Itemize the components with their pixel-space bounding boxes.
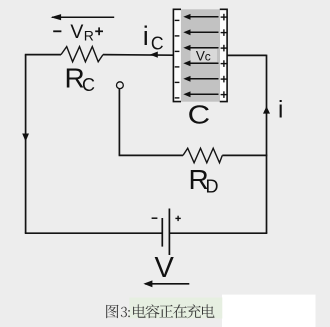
label minus of VR: [53, 30, 61, 32]
minus charge 5 on left plate: [175, 81, 180, 83]
field arrow 6 inside capacitor: [183, 91, 218, 97]
svg-text:C: C: [82, 75, 95, 95]
wire: top left segment to resistor RC: [25, 54, 61, 56]
field arrow 5 inside capacitor: [183, 76, 218, 82]
resistor RD zigzag: [183, 148, 222, 163]
battery negative plate (short bar): [161, 218, 163, 247]
white page band bottom right: [222, 295, 316, 327]
plus charge 2 on right plate: [221, 29, 228, 36]
plus charge 4 on right plate: [221, 60, 228, 67]
svg-text:C: C: [151, 34, 164, 54]
label plus of VR: [95, 27, 103, 35]
top voltage arrow (points left): [51, 14, 115, 20]
field arrow 4 inside capacitor: [183, 60, 218, 66]
svg-text:V: V: [196, 48, 205, 63]
capacitor right plate white strip: [220, 10, 227, 101]
caption highlight: [129, 298, 222, 319]
wire: right vertical branch: [266, 55, 268, 234]
battery plus label: [175, 216, 180, 221]
battery positive plate (long bar): [168, 209, 170, 256]
battery minus label: [152, 217, 158, 219]
plus charge 3 on right plate: [221, 45, 228, 52]
minus charge 2 on left plate: [175, 35, 180, 37]
wire: capacitor right plate to right corner: [227, 54, 267, 56]
minus charge 3 on left plate: [175, 50, 180, 52]
field arrow 3 inside capacitor: [183, 45, 218, 51]
svg-text:R: R: [84, 28, 94, 44]
plus charge 1 on right plate: [221, 14, 228, 21]
switch terminal circle: [117, 82, 124, 89]
wire: bottom segment right of battery: [170, 232, 267, 234]
battery current arrow (points left): [143, 280, 189, 287]
wire: middle branch vertical from switch terminal: [118, 89, 120, 156]
minus charge 4 on left plate: [175, 66, 180, 68]
wire: middle branch horizontal to RD: [119, 154, 183, 156]
svg-text:c: c: [205, 50, 211, 64]
wire: left vertical branch: [25, 55, 27, 234]
capacitor left plate bracket: [173, 9, 181, 101]
caption text 图3: 电容正在充电: [106, 304, 214, 318]
wire: RC to capacitor left plate: [103, 54, 174, 57]
minus charge 6 on left plate: [175, 97, 180, 99]
capacitor left plate white strip: [174, 10, 181, 101]
current arrow down on left wire: [22, 134, 29, 142]
wire: bottom segment left of battery: [25, 232, 162, 234]
svg-text:D: D: [206, 176, 219, 196]
plus charge 5 on right plate: [221, 76, 228, 83]
svg-text:i: i: [143, 21, 149, 51]
field arrow 2 inside capacitor: [183, 29, 218, 35]
resistor RC zigzag: [61, 47, 103, 62]
wire: RD to right vertical branch: [222, 154, 267, 156]
current arrow i up on right wire: [263, 106, 270, 113]
minus charge 1 on left plate: [175, 19, 180, 21]
capacitor right plate bracket: [220, 9, 227, 101]
current arrow iC head on top wire (pointing left): [150, 52, 158, 58]
svg-text:V: V: [70, 21, 83, 43]
svg-text:V: V: [155, 252, 175, 284]
svg-text:C: C: [188, 100, 211, 130]
svg-text:i: i: [278, 96, 283, 123]
field arrow 1 inside capacitor: [183, 14, 218, 20]
capacitor dielectric gray fill: [181, 9, 220, 101]
plus charge 6 on right plate: [221, 91, 228, 98]
Vc label box: [191, 49, 218, 62]
